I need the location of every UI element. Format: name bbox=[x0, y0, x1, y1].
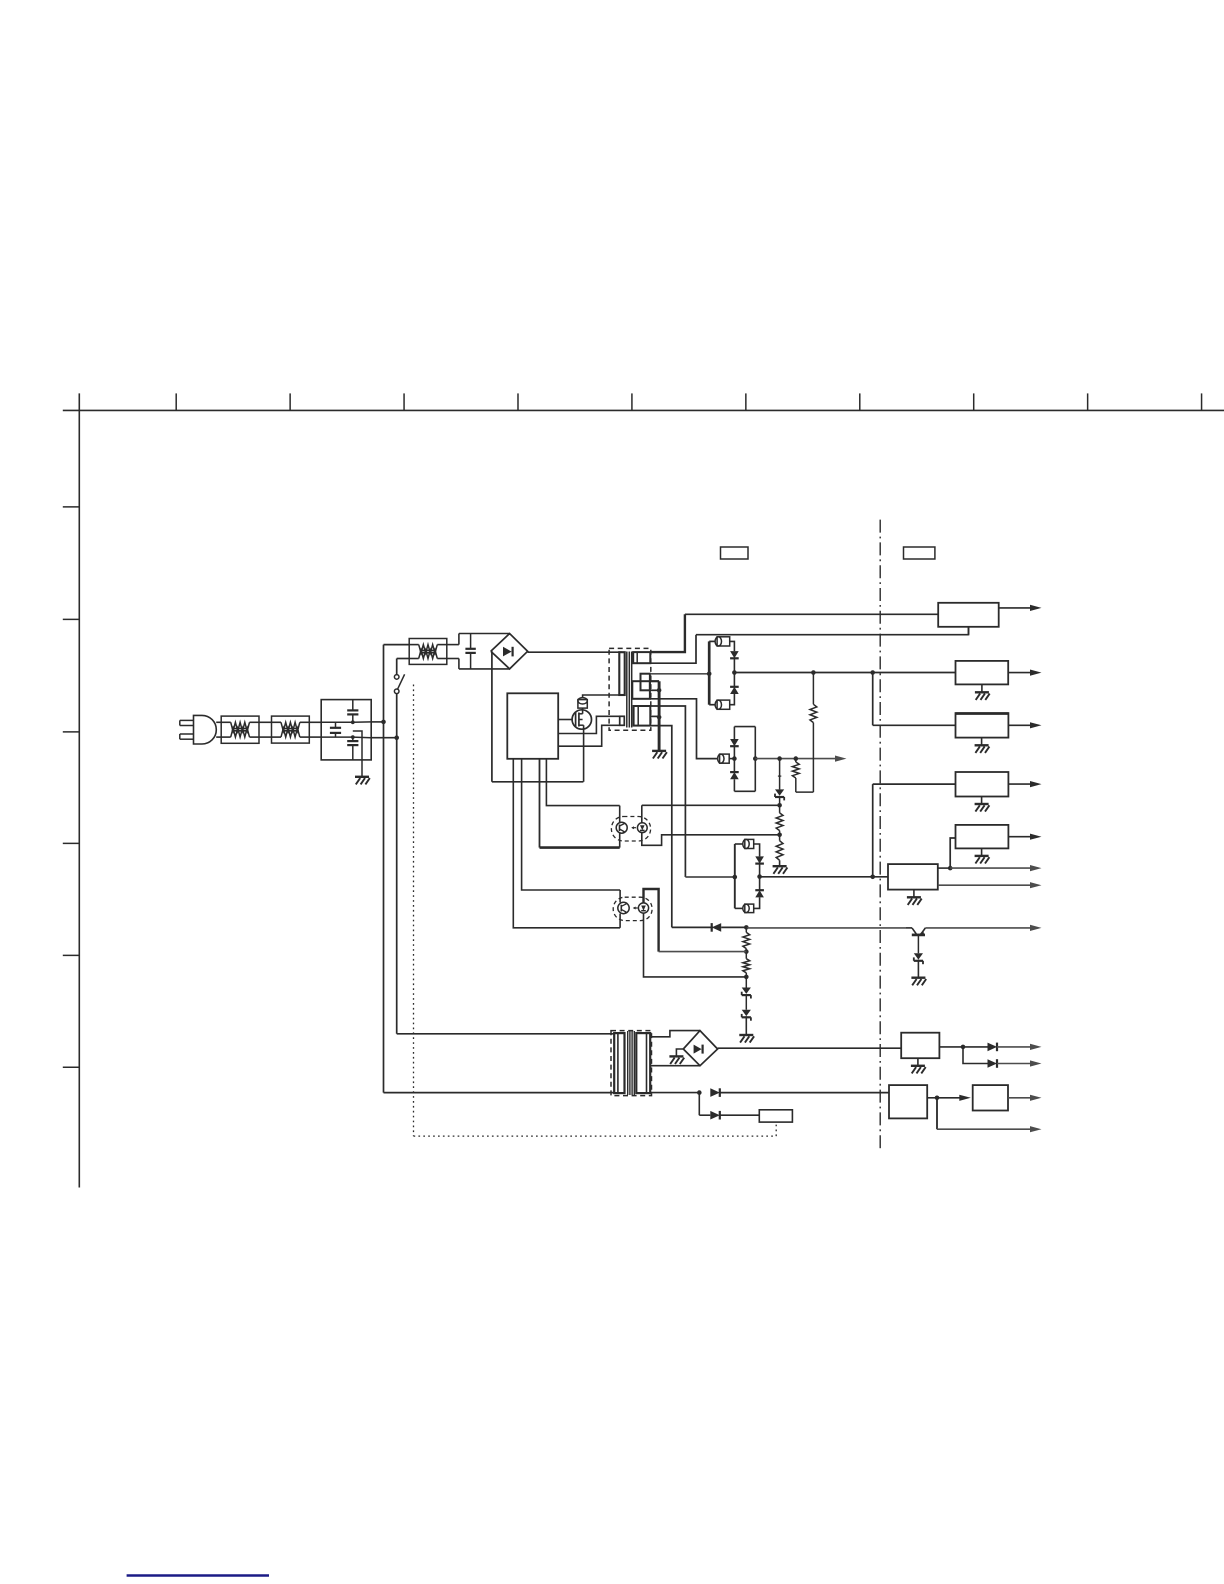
zener ZD1 bbox=[777, 756, 782, 761]
resistor R5 bbox=[745, 927, 747, 932]
label box primary bbox=[721, 547, 749, 559]
optocoupler PC2 bbox=[613, 897, 652, 920]
ground zener chain bbox=[745, 1016, 747, 1035]
wire bridge- return vertical bbox=[491, 651, 493, 782]
wire PC1 collector up bbox=[619, 806, 621, 823]
wire to box C bbox=[873, 724, 956, 726]
wire W2 bottom return bbox=[650, 635, 696, 664]
transformer T2 box bbox=[611, 1031, 652, 1096]
wire PC1 emitter down bbox=[619, 833, 621, 847]
wire L2 to filter bbox=[309, 721, 321, 723]
box I output arrow bbox=[1008, 1097, 1032, 1099]
ground box F bbox=[913, 890, 915, 898]
wire to D11 bbox=[698, 1093, 700, 1116]
filter internal wires bbox=[321, 721, 353, 723]
relay box K1 bbox=[759, 1110, 792, 1122]
wire main +B rail bbox=[734, 672, 955, 674]
T1 primary winding bbox=[619, 652, 624, 695]
wire drain bead to primary bottom bbox=[583, 695, 620, 697]
regulator box E bbox=[956, 825, 1009, 849]
T1 secondary winding W3b bbox=[632, 681, 650, 699]
T2 secondary winding bbox=[636, 1033, 650, 1093]
wire IC pin to opto PC2 emitter bbox=[513, 759, 620, 928]
T1 secondary winding W4 bbox=[634, 706, 651, 726]
output arrow -B bbox=[755, 758, 836, 760]
line filter box FL1 bbox=[321, 700, 371, 760]
regulator box G bbox=[901, 1033, 939, 1059]
bottom-left navy rule bbox=[127, 1574, 269, 1576]
wire box E feed bbox=[950, 838, 955, 868]
wire PC2 collector bbox=[619, 890, 621, 902]
line filter choke L3 bbox=[409, 639, 447, 665]
box D output arrow bbox=[1008, 783, 1031, 785]
power switch S1 bbox=[394, 675, 399, 680]
ground box C bbox=[981, 738, 983, 746]
zener ZD4 bbox=[917, 935, 919, 953]
N rail lower vertical wire bbox=[396, 694, 398, 1034]
wire W2 top to standby rail bbox=[650, 614, 685, 652]
wire D3 to FB3 bbox=[730, 694, 735, 705]
rect1 bus bbox=[708, 641, 711, 704]
wire PC2 emitter bbox=[619, 914, 621, 928]
diode D11 bbox=[699, 1114, 710, 1116]
ground box D bbox=[981, 797, 983, 805]
wire FB2 to D2 bbox=[730, 641, 735, 651]
ferrite bead FB1 on drain bbox=[578, 700, 587, 709]
regulator box A bbox=[938, 603, 999, 627]
switching regulator IC IC1 bbox=[507, 693, 558, 759]
wire N rail to T2 bbox=[397, 1033, 615, 1035]
ground R4 bbox=[779, 860, 781, 866]
ground ZD4 bbox=[917, 960, 919, 978]
wire rect3 rail to box D bbox=[872, 784, 874, 877]
regulator box F bbox=[888, 864, 938, 890]
wire W3b to bead FB4 bbox=[650, 699, 718, 759]
wire to box D bbox=[873, 783, 956, 785]
ground bridge D9 bbox=[676, 1049, 683, 1056]
filter X-capacitor C1 bbox=[335, 722, 337, 728]
zener ZD2 bbox=[742, 988, 751, 994]
box F output arrow upper bbox=[938, 867, 950, 869]
wire L rail to choke L3 bbox=[384, 644, 410, 646]
L rail vertical wire bbox=[383, 645, 385, 1093]
power switch linkage dotted line bbox=[413, 685, 415, 1137]
wire W4- to diode D8 bbox=[672, 926, 713, 928]
wire rect3 output bbox=[760, 876, 888, 878]
wire MOSFET drain bbox=[582, 708, 584, 714]
T1 center-tap bus bbox=[658, 681, 661, 751]
wire PC2 LED cathode bbox=[644, 913, 747, 977]
wire IC aux-sense upper bbox=[558, 716, 620, 733]
T1 secondary winding W2 bbox=[633, 652, 650, 663]
N rail upper wire to switch bbox=[396, 659, 398, 675]
wire filter to L rail bbox=[371, 721, 383, 723]
wire choke L3 to C4 rails bbox=[447, 644, 459, 646]
wire W4 top to rect3 bbox=[650, 706, 685, 877]
regulator box H bbox=[889, 1085, 927, 1118]
wire PC1 LED anode bbox=[641, 805, 643, 823]
diode D5 bbox=[733, 759, 735, 773]
left ruler ticks bbox=[63, 506, 80, 508]
wire T2 secondary bottom bbox=[650, 1092, 699, 1094]
page border vertical rule bbox=[78, 393, 80, 1187]
zener ZD3 bbox=[742, 1010, 751, 1016]
AC plug P1 bbox=[180, 719, 194, 721]
wire IC to MOSFET gate bbox=[558, 719, 572, 721]
page border horizontal rule bbox=[63, 409, 1224, 411]
diode D7 bbox=[759, 877, 761, 891]
resistor R3 bbox=[779, 805, 781, 813]
wire L rail to T2 bbox=[384, 1092, 615, 1094]
wire W4 bottom bbox=[650, 726, 672, 928]
T1 core bbox=[626, 652, 628, 728]
wire L1 to L2 bbox=[259, 721, 272, 723]
wire bridge D9 to box G bbox=[718, 1047, 902, 1049]
filter box I bbox=[973, 1085, 1008, 1110]
wire box A lower tap bbox=[968, 627, 970, 636]
label box secondary bbox=[904, 547, 935, 559]
wire D10 to box H bbox=[720, 1092, 889, 1094]
ground box B bbox=[981, 684, 983, 692]
wire Q2 out arrow bbox=[925, 927, 1031, 929]
wire R2 to R2b bbox=[796, 791, 814, 793]
ground box E bbox=[981, 848, 983, 856]
wire T2 secondary tap to bridge D9 bbox=[650, 1065, 700, 1067]
filter Y-capacitor C3 bbox=[352, 737, 354, 741]
regulator box C bbox=[956, 713, 1009, 738]
filter Y-capacitor C2 bbox=[352, 700, 354, 711]
resistor R2b bbox=[794, 756, 799, 761]
ground filter bbox=[355, 776, 369, 778]
box G output diode D12 arrow bbox=[939, 1046, 987, 1048]
top ruler ticks bbox=[175, 393, 177, 410]
box C output arrow bbox=[1008, 724, 1031, 726]
ferrite bead FB3 bbox=[717, 700, 730, 709]
diode D2 bbox=[730, 651, 739, 658]
transistor Q2 bbox=[906, 927, 912, 929]
wire D11 to relay box bbox=[720, 1114, 760, 1116]
wire IC pin to opto PC2 collector bbox=[522, 759, 621, 890]
line filter choke L2 bbox=[272, 716, 310, 743]
T2 primary winding bbox=[614, 1033, 624, 1093]
wire PC1 LED cathode bbox=[642, 833, 780, 846]
line filter choke L1 bbox=[221, 716, 259, 743]
ferrite bead FB5 bbox=[745, 839, 754, 848]
T1 aux winding bbox=[620, 716, 625, 725]
rect2 loop bbox=[734, 726, 755, 728]
diode D6 bbox=[755, 856, 764, 863]
wire W3a to rect bus bbox=[650, 673, 709, 675]
wire plug to choke L1 bbox=[216, 721, 221, 723]
wire MOSFET source return bbox=[583, 725, 585, 782]
ground T1 center tap bbox=[652, 750, 666, 752]
separator dash-dot line bbox=[879, 520, 881, 1152]
wire to rect3 bus bbox=[685, 876, 734, 878]
regulator box D bbox=[956, 772, 1009, 797]
resistor R6 bbox=[743, 959, 750, 973]
rect3 bus bbox=[734, 844, 736, 908]
box H lower output arrow bbox=[936, 1098, 938, 1129]
box A output arrow bbox=[999, 607, 1032, 609]
resistor R2 bbox=[812, 673, 814, 705]
ferrite bead FB2 bbox=[717, 637, 730, 646]
diode D3 bbox=[733, 673, 735, 687]
wire T2 secondary top to bridge D9 bbox=[650, 1031, 700, 1037]
wire primary return bottom bbox=[492, 781, 584, 783]
capacitor C4 bbox=[470, 634, 472, 649]
box G second diode D13 arrow bbox=[963, 1047, 988, 1064]
diode D4 bbox=[733, 746, 735, 758]
box B output arrow bbox=[1008, 672, 1031, 674]
wire main rail to box C bbox=[872, 673, 874, 726]
box E output arrow bbox=[1008, 836, 1031, 838]
wire filter to N rail bbox=[371, 737, 397, 739]
resistor R4 bbox=[779, 835, 781, 841]
ferrite bead FB4 bbox=[720, 754, 730, 763]
regulator box B bbox=[956, 661, 1009, 685]
wire PC2 LED anode bbox=[644, 889, 659, 952]
wire IC pin to opto PC1 collector bbox=[546, 759, 619, 806]
wire to transistor Q2 bbox=[746, 927, 906, 929]
filter ground tap wire bbox=[353, 731, 362, 777]
box F output arrow lower bbox=[938, 884, 1032, 886]
MOSFET Q1 bbox=[572, 710, 591, 729]
T2 core bbox=[627, 1031, 629, 1095]
diode D8 bbox=[712, 923, 722, 932]
bridge rectifier D9 bbox=[683, 1031, 717, 1066]
diode D10 bbox=[710, 1088, 720, 1097]
transformer T1 shield box bbox=[609, 648, 651, 730]
wire IC pin to opto PC1 emitter bbox=[539, 759, 541, 848]
ferrite bead FB6 bbox=[745, 904, 754, 913]
wire switch to choke L3 bbox=[397, 658, 410, 660]
ground box G bbox=[917, 1058, 919, 1066]
wire box H to box I bbox=[927, 1097, 937, 1099]
wire IC aux-sense lower bbox=[558, 725, 620, 746]
T1 secondary winding W3a bbox=[641, 674, 650, 691]
optocoupler PC1 bbox=[611, 817, 650, 842]
wire bridge+ to transformer primary bbox=[528, 651, 622, 653]
bridge rectifier D1 bbox=[491, 634, 528, 669]
